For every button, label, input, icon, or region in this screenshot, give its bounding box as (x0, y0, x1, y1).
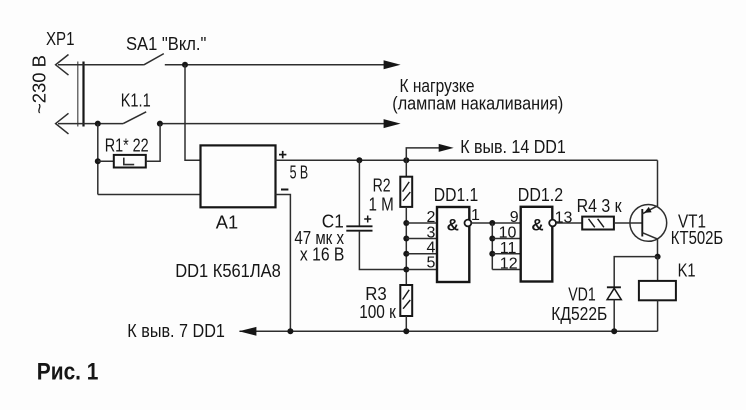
wire R4 to base (614, 222, 643, 224)
wire to VD1 (614, 257, 657, 288)
resistor R4 (582, 217, 614, 230)
relay K1 coil box (639, 281, 676, 300)
svg-text:1 М: 1 М (369, 195, 394, 215)
wire C1 bottom to node (359, 231, 406, 270)
svg-text:КД522Б: КД522Б (551, 304, 607, 324)
wire +5V rail (276, 159, 658, 161)
connector XP1 pin chevron bottom (56, 113, 69, 134)
resistor R2 power marks (403, 182, 411, 201)
node pin10 link (489, 236, 495, 242)
svg-text:10: 10 (499, 224, 517, 241)
gate DD1.2 inversion bubble (549, 220, 556, 227)
svg-text:&: & (531, 216, 543, 235)
wire ground rail (240, 330, 658, 332)
svg-text:2: 2 (427, 209, 436, 226)
capacitor C1 lead top (358, 160, 360, 226)
svg-text:12: 12 (500, 256, 518, 273)
wire A1 minus output (276, 195, 291, 332)
wire top line right (165, 64, 385, 66)
svg-text:(лампам накаливания): (лампам накаливания) (392, 93, 563, 113)
svg-text:11: 11 (500, 240, 517, 257)
svg-text:КТ502Б: КТ502Б (671, 228, 723, 248)
svg-text:K1.1: K1.1 (121, 90, 151, 110)
svg-text:R1* 22: R1* 22 (105, 135, 149, 155)
arrow to load bottom (384, 119, 401, 128)
svg-text:R4 3 к: R4 3 к (577, 196, 622, 216)
power supply A1 box (201, 145, 276, 207)
wire bottom line left (58, 123, 123, 125)
wire top line left (58, 64, 144, 66)
svg-text:х 16 В: х 16 В (300, 244, 345, 264)
wire pin 10 (492, 238, 520, 240)
node minus rail junction (287, 328, 293, 334)
svg-text:К выв. 7 DD1: К выв. 7 DD1 (127, 321, 225, 341)
wire lower input to A1 (98, 194, 201, 196)
wire branch to pin 14 (406, 148, 439, 160)
resistor R3 (400, 285, 412, 316)
transistor VT1 emitter (642, 206, 657, 214)
resistor R2 (400, 177, 412, 207)
switch SA1 blade (144, 54, 164, 65)
wire K1 bottom (657, 300, 659, 331)
wire R3 bottom (405, 316, 407, 331)
transistor VT1 circle (630, 205, 667, 242)
wire gate2 output pin 13 (556, 222, 582, 224)
node VD1 bottom junction (611, 328, 617, 334)
wire SA1 to A1 input (185, 65, 201, 160)
arrow to pin 14 DD1 (439, 144, 454, 152)
wire bottom line right (160, 123, 385, 125)
gate DD1.1 inversion bubble (465, 220, 472, 227)
wire emitter to +5V rail (657, 160, 659, 207)
node pin2 (403, 220, 409, 226)
arrow to pin 7 DD1 (239, 327, 257, 336)
resistor R2 lead (405, 160, 407, 176)
node pin3 (403, 236, 409, 242)
wire pin 4 (406, 253, 437, 255)
wire VD1 bottom (613, 300, 615, 332)
node collector junction (655, 254, 661, 260)
wire R1 right to K1.1 (146, 124, 160, 162)
svg-text:R2: R2 (373, 176, 391, 196)
resistor R3 power marks (403, 290, 411, 309)
wire pin 3 (406, 238, 437, 240)
wire pin 12 (492, 269, 520, 271)
node pin5 (403, 267, 409, 273)
transistor VT1 base bar (641, 209, 643, 237)
svg-text:100 к: 100 к (359, 302, 396, 322)
node pin11 link (489, 251, 495, 257)
svg-text:5: 5 (427, 254, 436, 271)
svg-text:Рис. 1: Рис. 1 (37, 359, 99, 386)
svg-text:A1: A1 (216, 213, 238, 233)
svg-text:K1: K1 (678, 260, 696, 280)
svg-text:5 В: 5 В (290, 163, 309, 183)
node K1.1 left junction (95, 121, 101, 127)
svg-text:XP1: XP1 (46, 29, 75, 49)
connector XP1 pin chevron top (56, 55, 69, 76)
resistor R1 fusible mark (124, 158, 134, 165)
arrow to load top (384, 60, 401, 69)
wire collector to K1 (657, 257, 659, 281)
wire pin 2 (406, 222, 437, 224)
A1 minus terminal mark (281, 189, 288, 191)
node SA1 output junction (182, 62, 188, 68)
diode VD1 triangle (607, 288, 621, 299)
wire gate1 output (471, 222, 520, 224)
node R2 top junction (403, 157, 409, 163)
wire left drop to R1 and A1 (97, 124, 99, 195)
node R1 left junction (95, 158, 101, 164)
svg-text:R3: R3 (365, 284, 387, 304)
gate DD1.1 box (437, 207, 469, 282)
node R3 bottom junction (403, 328, 409, 334)
wire pin 11 (492, 253, 520, 255)
svg-text:DD1.1: DD1.1 (434, 185, 479, 205)
wire to R1 left (98, 160, 114, 162)
wire link vertical (491, 223, 493, 270)
node K1.1 right junction (157, 121, 163, 127)
wire timing node vertical (405, 207, 407, 285)
A1 plus terminal mark (279, 151, 286, 158)
svg-text:DD1.2: DD1.2 (518, 185, 563, 205)
capacitor C1 plates (346, 226, 372, 230)
svg-text:SA1 "Вкл.": SA1 "Вкл." (126, 34, 206, 54)
node pin4 (403, 251, 409, 257)
svg-text:DD1 К561ЛА8: DD1 К561ЛА8 (175, 261, 281, 281)
svg-text:1: 1 (471, 207, 480, 224)
capacitor C1 polarity plus (364, 216, 371, 223)
transistor VT1 collector (642, 233, 657, 257)
svg-text:~230 В: ~230 В (30, 55, 50, 114)
transistor VT1 emitter arrow (PNP) (644, 207, 652, 213)
svg-text:13: 13 (555, 210, 573, 227)
node C1 top junction (356, 157, 362, 163)
resistor R1 (114, 155, 146, 168)
resistor R4 power marks (589, 219, 604, 228)
gate DD1.2 box (521, 207, 553, 282)
svg-text:К выв. 14 DD1: К выв. 14 DD1 (460, 137, 566, 157)
contact K1.1 blade (123, 112, 146, 124)
wire pin 5 (406, 269, 437, 271)
connector XP1 plug lines (77, 62, 79, 127)
svg-text:&: & (447, 216, 459, 235)
diode VD1 cathode bar (607, 286, 621, 288)
svg-text:VD1: VD1 (568, 285, 596, 305)
node pin9 link (489, 220, 495, 226)
